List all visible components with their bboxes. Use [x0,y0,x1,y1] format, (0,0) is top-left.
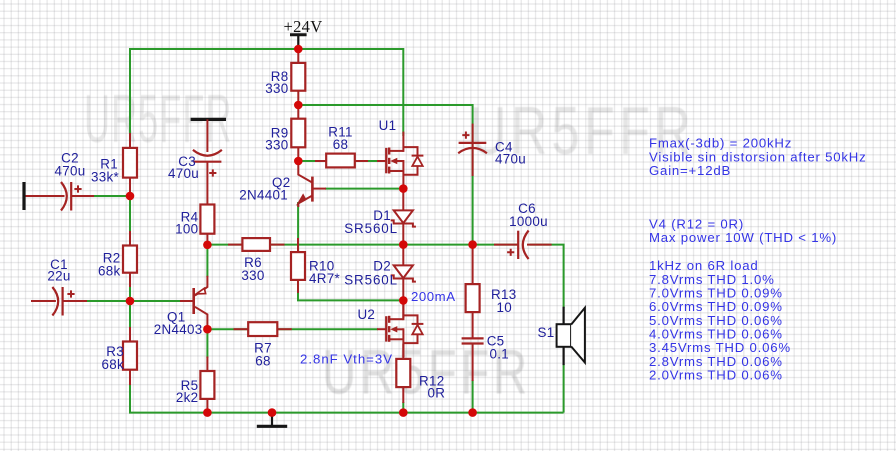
junction R12/rail [399,408,408,417]
svg-text:0R: 0R [428,385,446,400]
resistor R3 [123,342,137,370]
wire R4 to Q1 emitter [206,245,208,277]
speaker S1 pins [562,307,564,325]
resistor R4 [200,205,214,234]
transistor Q1 collector [195,307,208,329]
diode D1 triangle [394,210,413,223]
svg-text:22u: 22u [47,268,70,283]
transistor Q1 base pin [180,300,193,302]
svg-text:200mA: 200mA [411,289,456,304]
input terminal bar (left) [22,182,25,210]
wire Q2 base to U1 source junction [325,188,403,190]
svg-text:2.0Vrms THD 0.06%: 2.0Vrms THD 0.06% [649,368,783,383]
svg-text:470u: 470u [495,152,526,167]
junction ground symbol/rail [268,408,277,417]
wire R7 row from Q1 collector to U2 gate [207,328,378,330]
junction C4/R13/output [468,240,477,249]
speaker S1 horn [571,308,585,363]
capacitor C2 pins [26,195,65,197]
capacitor C1 pins [31,300,56,302]
svg-text:U2: U2 [357,307,375,322]
transistor Q2 emitter arrow (NPN, filled) [298,195,306,205]
resistor R1 pins [129,133,131,148]
svg-text:2N4401: 2N4401 [239,188,288,203]
junction U1 source/Q2 base/D1 [399,184,408,193]
capacitor C6 plates [517,231,519,259]
svg-text:68: 68 [333,137,349,152]
resistor R8 pins [297,49,299,63]
svg-text:+24V: +24V [284,17,323,36]
capacitor C1 plates [52,287,58,316]
resistor R5 pins [206,357,208,372]
terminal bar above C3 [191,118,226,121]
transistor Q2 emitter [298,196,311,207]
svg-text:330: 330 [265,138,288,153]
wire R10 bottom to D2 cathode junction [298,292,403,300]
watermark UR5FFR bottom-middle [322,336,531,409]
junction C2/R1/R2 [126,192,135,201]
svg-text:1000u: 1000u [509,214,548,229]
resistor R7 pins [234,328,249,330]
junction D1/D2/output [399,240,408,249]
junction R5/ground rail [203,408,212,417]
transistor Q1 emitter [195,276,208,296]
diode D2 schottky cathode [391,275,416,281]
capacitor C4 plates [459,142,487,144]
diode D1 cathode pin [402,224,404,245]
resistor R4 pins [206,162,208,205]
capacitor C5 bottom pin [472,344,474,382]
resistor R2 pins [129,231,131,246]
wire Q1 collector column to R5 [206,329,208,358]
svg-text:68k: 68k [98,264,121,279]
svg-text:68: 68 [255,354,271,369]
wire C1 row to Q1 base [86,300,180,302]
junction R9/R11/Q2 [294,157,303,166]
junction D2/R10/U2 drain [399,296,408,305]
resistor R13 [466,284,480,312]
transistor Q2 collector [298,161,311,182]
svg-text:100: 100 [175,222,198,237]
capacitor C3 plates [193,150,222,156]
resistor R12 pins [402,344,404,359]
resistor R12 [396,359,410,387]
svg-text:SR560L: SR560L [344,273,398,288]
transistor Q2 base pin [312,188,326,190]
resistor R6 pins [228,244,242,246]
capacitor C5 plates [462,337,484,339]
resistor R10 [291,252,305,280]
resistor R2 [123,246,137,273]
svg-text:68k: 68k [102,357,125,372]
diode D2 triangle [394,265,413,278]
svg-text:33k*: 33k* [91,169,119,184]
speaker S1 box [557,324,572,347]
ground symbol stem [271,413,273,426]
svg-text:Max power 10W (THD < 1%): Max power 10W (THD < 1%) [649,230,837,245]
wire output row: C6 right to speaker [530,245,564,308]
junction C1/R2/R3/Q1 base [126,297,135,306]
junction R4/R6/Q1 emitter [203,241,212,250]
transistor Q1 base bar [192,288,195,314]
wire R12 bottom to rail [402,402,404,413]
wire rail from R8/R9 junction to C4 column [298,105,472,176]
diode D1 schottky cathode [391,220,416,226]
ground symbol bar [257,425,287,428]
capacitor C2 plates [61,182,67,211]
resistor R10 pins [297,238,299,252]
resistor R9 [291,119,305,148]
diode D2 anode pin [402,245,404,266]
resistor R7 [248,322,277,336]
resistor R11 [326,154,355,168]
svg-text:4R7*: 4R7* [309,271,340,286]
wire Q2 emitter down to R10 [297,202,299,253]
power +24V bar [290,33,307,36]
svg-text:S1: S1 [538,325,555,340]
svg-text:330: 330 [241,268,264,283]
svg-text:U1: U1 [379,118,397,133]
svg-text:D2: D2 [373,259,391,274]
transistor Q2 base bar [311,177,314,202]
watermark UR5FFR top-left [84,80,233,158]
resistor R3 pins [129,327,131,342]
svg-text:0.1: 0.1 [490,347,510,362]
resistor R6 [242,238,270,251]
wire +24V top rail with drops to R1 and U1 drain [130,49,403,148]
svg-text:470u: 470u [55,164,86,179]
resistor R9 pins [297,105,299,119]
junction Q1 collector/R7/R5 [203,325,212,334]
wire left column R1-R2-R3 and bottom ground rail [130,196,564,413]
capacitor C4 pin [472,124,474,176]
wire R11 row from junction to U1 gate [298,160,378,162]
svg-text:10: 10 [497,300,513,315]
wire output row: R4/R6 junction to C6 left [207,244,517,246]
diode D1 anode pin [402,189,404,211]
transistor Q1 emitter arrow (PNP, open) [196,288,205,294]
wire C5 bottom to rail [472,380,474,413]
mosfet U2 drain pin [402,300,404,318]
resistor R1 [123,148,137,178]
wire C2 to R1 junction [93,195,131,197]
svg-text:2N4403: 2N4403 [154,322,203,337]
mosfet U2 [385,316,387,341]
mosfet U1 [385,148,387,173]
capacitor C3 pin top [206,119,208,152]
junction R8/R9 [294,101,303,110]
svg-text:470u: 470u [168,166,199,181]
resistor R13 pins [472,245,474,285]
power +24V stem [297,35,299,47]
wire speaker bottom to ground rail [563,364,565,413]
svg-text:Gain=+12dB: Gain=+12dB [649,163,731,178]
svg-text:2.8nF Vth=3V: 2.8nF Vth=3V [300,352,393,367]
capacitor C6 pins [494,244,518,246]
junction C5/rail [468,408,477,417]
diode D2 cathode pin [402,279,404,301]
resistor R11 pins [315,160,326,162]
wire C4 bottom to output junction [472,176,474,245]
resistor R8 [291,63,305,91]
svg-text:2k2: 2k2 [176,390,199,405]
svg-text:330: 330 [265,81,288,96]
resistor R5 [200,371,214,399]
watermark UR5FFR top-right [470,92,695,170]
svg-text:SR560L: SR560L [344,221,398,236]
junction +24V rail [294,45,303,54]
